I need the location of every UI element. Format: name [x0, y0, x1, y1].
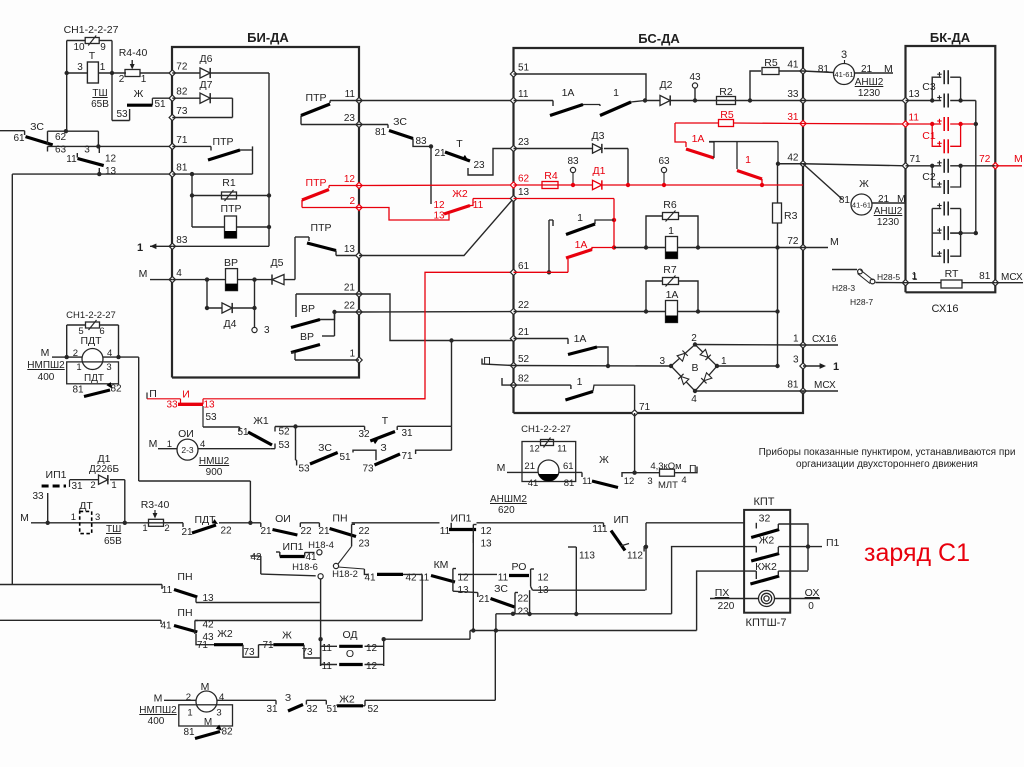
svg-text:22: 22 [518, 300, 530, 311]
svg-text:ПТР: ПТР [213, 136, 234, 148]
svg-text:23: 23 [518, 137, 530, 148]
svg-text:13: 13 [105, 166, 117, 177]
svg-text:организации двухстороннего дви: организации двухстороннего движения [796, 459, 978, 470]
svg-text:Т: Т [89, 50, 96, 62]
svg-text:1: 1 [793, 334, 799, 345]
svg-text:23: 23 [473, 160, 485, 171]
svg-text:1: 1 [187, 708, 192, 719]
svg-text:КМ: КМ [434, 559, 449, 571]
svg-text:1230: 1230 [877, 217, 900, 228]
svg-text:1А: 1А [692, 133, 705, 145]
svg-text:51: 51 [154, 99, 166, 110]
svg-text:3: 3 [216, 708, 221, 719]
svg-text:Ж: Ж [599, 454, 609, 466]
svg-text:82: 82 [221, 727, 233, 738]
svg-text:82: 82 [110, 384, 122, 395]
svg-text:81: 81 [979, 271, 991, 282]
svg-text:ИП1: ИП1 [451, 513, 472, 525]
svg-text:21: 21 [260, 526, 272, 537]
svg-text:43: 43 [689, 72, 701, 83]
svg-text:З: З [285, 692, 291, 704]
svg-text:11: 11 [473, 200, 484, 211]
svg-text:0: 0 [808, 601, 814, 612]
svg-text:61: 61 [563, 461, 574, 472]
svg-text:М: М [41, 347, 50, 359]
svg-text:2: 2 [691, 333, 697, 344]
svg-text:1: 1 [76, 362, 81, 373]
svg-text:Н18-6: Н18-6 [292, 562, 318, 573]
svg-text:71: 71 [197, 640, 209, 651]
svg-text:73: 73 [243, 647, 255, 658]
svg-text:R7: R7 [663, 264, 677, 276]
svg-text:73: 73 [362, 464, 374, 475]
svg-text:БК-ДА: БК-ДА [930, 30, 971, 45]
svg-text:МЛТ: МЛТ [658, 480, 678, 491]
svg-text:21: 21 [318, 526, 330, 537]
svg-text:61: 61 [518, 261, 530, 272]
svg-text:НМПШ2: НМПШ2 [27, 360, 65, 371]
svg-text:2-3: 2-3 [181, 445, 194, 455]
svg-text:41-61: 41-61 [834, 70, 853, 79]
svg-text:Ж: Ж [859, 178, 869, 190]
svg-text:22: 22 [358, 526, 370, 537]
svg-text:ПТР: ПТР [221, 203, 242, 215]
svg-text:ИП1: ИП1 [283, 541, 304, 553]
svg-text:11: 11 [557, 444, 567, 455]
svg-text:65В: 65В [91, 99, 109, 110]
svg-text:11: 11 [322, 661, 333, 672]
svg-text:П1: П1 [826, 537, 840, 549]
svg-text:62: 62 [518, 174, 530, 185]
svg-text:21: 21 [524, 461, 535, 472]
svg-text:41-61: 41-61 [852, 201, 871, 210]
svg-text:ОХ: ОХ [805, 587, 820, 599]
svg-text:73: 73 [301, 647, 313, 658]
svg-text:ТШ: ТШ [106, 524, 121, 535]
svg-text:33: 33 [166, 400, 178, 411]
svg-text:ОИ: ОИ [275, 513, 291, 525]
svg-text:23: 23 [358, 539, 370, 550]
svg-text:1: 1 [141, 74, 147, 85]
svg-text:72: 72 [176, 62, 188, 73]
svg-text:65В: 65В [104, 536, 122, 547]
svg-text:71: 71 [910, 154, 922, 165]
svg-text:23: 23 [517, 607, 529, 618]
svg-text:13: 13 [457, 585, 469, 596]
svg-text:М: М [149, 438, 158, 450]
svg-text:РО: РО [512, 561, 527, 573]
svg-text:10: 10 [73, 42, 85, 53]
svg-text:400: 400 [38, 372, 55, 383]
svg-text:220: 220 [718, 601, 735, 612]
svg-text:11: 11 [909, 113, 920, 124]
svg-text:21: 21 [181, 527, 193, 538]
svg-text:1: 1 [745, 154, 751, 166]
svg-text:Ж2: Ж2 [217, 628, 233, 640]
svg-text:112: 112 [627, 551, 643, 562]
svg-text:Д5: Д5 [271, 257, 284, 269]
svg-text:Д4: Д4 [224, 318, 237, 330]
svg-text:ПХ: ПХ [715, 587, 730, 599]
svg-text:4: 4 [681, 475, 686, 486]
svg-text:82: 82 [176, 87, 188, 98]
svg-text:12: 12 [366, 643, 378, 654]
svg-text:81: 81 [176, 163, 188, 174]
svg-text:9: 9 [100, 42, 106, 53]
svg-text:R4-40: R4-40 [119, 47, 148, 59]
svg-text:R6: R6 [663, 199, 677, 211]
svg-text:33: 33 [32, 491, 44, 502]
svg-text:23: 23 [344, 113, 356, 124]
svg-text:13: 13 [203, 400, 215, 411]
svg-text:М: М [884, 63, 893, 75]
svg-text:11: 11 [345, 89, 356, 100]
svg-text:ОД: ОД [342, 629, 357, 641]
svg-text:ПН: ПН [177, 571, 192, 583]
svg-text:R3-40: R3-40 [141, 499, 170, 511]
svg-text:М: М [897, 193, 906, 205]
svg-text:Н28-3: Н28-3 [832, 283, 855, 293]
svg-text:52: 52 [367, 704, 379, 715]
svg-text:Ж: Ж [282, 630, 292, 642]
svg-text:11: 11 [440, 526, 451, 537]
svg-text:ИП1: ИП1 [46, 469, 67, 481]
svg-text:ИП: ИП [613, 514, 628, 526]
svg-text:М: М [1014, 153, 1023, 165]
svg-text:32: 32 [759, 513, 771, 525]
svg-text:1: 1 [668, 225, 674, 237]
svg-text:НМШ2: НМШ2 [199, 456, 230, 467]
svg-text:СХ16: СХ16 [812, 334, 837, 345]
svg-text:113: 113 [579, 551, 595, 562]
svg-text:1: 1 [142, 523, 147, 534]
svg-text:1: 1 [577, 212, 583, 224]
svg-text:R2: R2 [719, 86, 733, 98]
svg-text:81: 81 [183, 727, 195, 738]
svg-text:81: 81 [564, 478, 575, 489]
svg-text:1: 1 [167, 439, 172, 450]
svg-text:ТШ: ТШ [92, 88, 107, 99]
svg-text:1А: 1А [666, 289, 679, 301]
svg-text:Д6: Д6 [200, 53, 213, 65]
svg-text:Ж: Ж [134, 88, 144, 100]
svg-text:1: 1 [71, 512, 76, 523]
svg-text:41: 41 [364, 573, 376, 584]
svg-text:1А: 1А [562, 87, 575, 99]
svg-text:КПТ: КПТ [753, 496, 774, 508]
svg-text:3: 3 [106, 362, 111, 373]
svg-text:М: М [204, 717, 212, 728]
svg-text:83: 83 [176, 235, 188, 246]
svg-text:81: 81 [818, 64, 830, 75]
svg-text:31: 31 [266, 704, 278, 715]
svg-text:81: 81 [787, 380, 799, 391]
svg-text:53: 53 [205, 412, 217, 423]
svg-text:52: 52 [518, 354, 530, 365]
svg-text:12: 12 [624, 476, 635, 487]
svg-text:R4: R4 [544, 170, 558, 182]
svg-text:2: 2 [119, 74, 125, 85]
svg-text:51: 51 [326, 704, 338, 715]
svg-text:41: 41 [160, 621, 172, 632]
svg-text:3: 3 [77, 62, 83, 73]
svg-text:13: 13 [344, 244, 356, 255]
svg-text:П: П [483, 355, 491, 367]
svg-text:620: 620 [498, 505, 515, 516]
svg-text:12: 12 [433, 200, 445, 211]
svg-text:Приборы показанные пунктиром,: Приборы показанные пунктиром, устанавлив… [759, 446, 1016, 458]
svg-text:81: 81 [375, 127, 387, 138]
svg-text:33: 33 [787, 89, 799, 100]
svg-text:6: 6 [99, 326, 104, 337]
svg-text:3: 3 [84, 145, 90, 156]
svg-text:12: 12 [105, 154, 117, 165]
svg-text:1: 1 [912, 272, 918, 283]
svg-text:53: 53 [116, 109, 128, 120]
svg-text:13: 13 [433, 211, 445, 222]
svg-text:81: 81 [72, 385, 84, 396]
svg-text:R5: R5 [764, 57, 778, 69]
svg-text:1А: 1А [575, 239, 588, 251]
svg-text:ЗС: ЗС [318, 442, 332, 454]
svg-text:21: 21 [344, 283, 356, 294]
svg-text:Д1: Д1 [593, 165, 606, 177]
svg-text:42: 42 [787, 152, 799, 163]
svg-text:21: 21 [478, 594, 490, 605]
svg-text:СН1-2-2-27: СН1-2-2-27 [66, 310, 116, 321]
svg-text:53: 53 [298, 464, 310, 475]
svg-text:61: 61 [13, 133, 25, 144]
svg-text:51: 51 [339, 452, 351, 463]
svg-text:5: 5 [78, 326, 83, 337]
svg-text:51: 51 [518, 63, 530, 74]
svg-text:4,3кОм: 4,3кОм [650, 461, 681, 472]
svg-text:ПДТ: ПДТ [194, 514, 216, 526]
svg-text:31: 31 [401, 428, 413, 439]
svg-text:71: 71 [176, 135, 188, 146]
svg-text:ЗС: ЗС [494, 583, 508, 595]
svg-text:12: 12 [529, 444, 540, 455]
svg-text:ПТР: ПТР [306, 177, 327, 189]
svg-text:Т: Т [456, 138, 463, 150]
svg-text:82: 82 [518, 374, 530, 385]
svg-text:М: М [139, 268, 148, 280]
svg-text:НМПШ2: НМПШ2 [139, 705, 177, 716]
svg-text:12: 12 [537, 573, 549, 584]
svg-text:заряд С1: заряд С1 [864, 539, 970, 567]
svg-text:3: 3 [647, 476, 652, 487]
svg-text:Ж2: Ж2 [759, 535, 775, 547]
svg-text:3: 3 [264, 325, 270, 336]
svg-text:83: 83 [567, 156, 579, 167]
svg-text:11: 11 [518, 89, 529, 100]
svg-text:22: 22 [344, 301, 356, 312]
svg-text:Т: Т [382, 415, 389, 427]
svg-text:СН1-2-2-27: СН1-2-2-27 [521, 424, 571, 435]
svg-text:RT: RT [945, 268, 959, 280]
svg-text:1А: 1А [574, 333, 587, 345]
svg-text:ОИ: ОИ [178, 428, 194, 440]
svg-text:ДТ: ДТ [79, 500, 93, 512]
svg-text:4: 4 [176, 268, 182, 279]
svg-text:АНШ2: АНШ2 [874, 206, 903, 217]
svg-text:КЖ2: КЖ2 [755, 561, 777, 573]
svg-text:1230: 1230 [858, 88, 881, 99]
svg-text:31: 31 [787, 112, 799, 123]
svg-text:22: 22 [517, 594, 529, 605]
svg-text:53: 53 [278, 440, 290, 451]
svg-text:71: 71 [262, 640, 274, 651]
svg-text:АНШ2: АНШ2 [855, 77, 884, 88]
svg-text:ВР: ВР [301, 303, 315, 315]
svg-text:R3: R3 [784, 210, 798, 222]
svg-text:400: 400 [148, 716, 165, 727]
svg-text:БИ-ДА: БИ-ДА [247, 30, 289, 45]
svg-text:И: И [182, 389, 190, 401]
svg-text:1: 1 [833, 361, 839, 373]
svg-text:81: 81 [839, 195, 851, 206]
svg-text:41: 41 [787, 60, 799, 71]
svg-text:БС-ДА: БС-ДА [638, 31, 680, 46]
svg-text:83: 83 [415, 136, 427, 147]
svg-text:СХ16: СХ16 [932, 303, 959, 315]
svg-text:АНШМ2: АНШМ2 [490, 494, 527, 505]
svg-text:Д2: Д2 [660, 79, 673, 91]
svg-text:1: 1 [349, 349, 355, 360]
svg-text:М: М [154, 693, 163, 705]
svg-text:Д3: Д3 [592, 130, 605, 142]
svg-text:2: 2 [186, 692, 191, 703]
svg-text:12: 12 [366, 661, 378, 672]
svg-text:СН1-2-2-27: СН1-2-2-27 [64, 24, 119, 36]
svg-text:В: В [691, 362, 698, 374]
svg-text:73: 73 [176, 106, 188, 117]
svg-text:62: 62 [55, 132, 67, 143]
svg-text:2: 2 [349, 196, 355, 207]
svg-text:М: М [830, 236, 839, 248]
svg-text:11: 11 [162, 585, 173, 596]
svg-text:21: 21 [434, 148, 446, 159]
svg-text:М: М [497, 462, 506, 474]
svg-text:71: 71 [639, 402, 651, 413]
svg-text:13: 13 [909, 89, 921, 100]
svg-text:ПДТ: ПДТ [84, 373, 104, 384]
svg-text:Ж2: Ж2 [339, 694, 355, 706]
svg-text:52: 52 [278, 427, 290, 438]
svg-text:51: 51 [237, 427, 249, 438]
svg-text:4: 4 [219, 692, 224, 703]
svg-text:4: 4 [691, 394, 697, 405]
svg-text:21: 21 [518, 327, 530, 338]
svg-text:Ж2: Ж2 [452, 188, 468, 200]
svg-text:ПН: ПН [332, 513, 347, 525]
svg-text:71: 71 [401, 451, 413, 462]
svg-text:З: З [380, 442, 386, 454]
svg-text:Ж1: Ж1 [253, 415, 269, 427]
svg-text:Н28-5: Н28-5 [877, 272, 900, 282]
svg-text:12: 12 [344, 174, 356, 185]
svg-text:3: 3 [841, 49, 847, 61]
svg-text:3: 3 [95, 512, 100, 523]
svg-text:12: 12 [480, 526, 492, 537]
svg-text:О: О [346, 648, 354, 660]
svg-text:Н28-7: Н28-7 [850, 297, 873, 307]
svg-text:63: 63 [658, 156, 670, 167]
svg-text:11: 11 [582, 476, 592, 487]
svg-text:11: 11 [66, 154, 77, 165]
svg-text:13: 13 [480, 539, 492, 550]
svg-text:11: 11 [498, 573, 509, 584]
svg-text:72: 72 [787, 236, 799, 247]
svg-text:111: 111 [592, 524, 608, 535]
svg-text:ВР: ВР [300, 331, 314, 343]
svg-text:22: 22 [220, 526, 232, 537]
svg-text:ЗС: ЗС [393, 116, 407, 128]
svg-text:ПТР: ПТР [306, 92, 327, 104]
svg-text:ВР: ВР [224, 257, 238, 269]
svg-text:22: 22 [300, 526, 312, 537]
svg-text:32: 32 [306, 704, 318, 715]
svg-text:2: 2 [164, 523, 169, 534]
svg-text:41: 41 [528, 478, 539, 489]
svg-text:1: 1 [613, 87, 619, 99]
svg-text:Д7: Д7 [200, 79, 213, 91]
svg-text:ПТР: ПТР [311, 222, 332, 234]
svg-text:М: М [20, 512, 29, 524]
svg-text:Н18-2: Н18-2 [332, 569, 358, 580]
svg-text:КПТШ-7: КПТШ-7 [746, 617, 787, 629]
svg-text:11: 11 [322, 643, 333, 654]
svg-text:72: 72 [979, 154, 991, 165]
svg-text:МСХ: МСХ [814, 380, 836, 391]
svg-text:С3: С3 [922, 81, 936, 93]
svg-text:С1: С1 [922, 130, 936, 142]
svg-text:2: 2 [90, 480, 95, 491]
svg-text:13: 13 [518, 187, 530, 198]
svg-text:32: 32 [358, 429, 370, 440]
svg-text:1: 1 [111, 480, 116, 491]
svg-text:Д226Б: Д226Б [89, 464, 119, 475]
svg-text:1: 1 [137, 242, 143, 254]
svg-text:П: П [689, 463, 697, 475]
svg-text:Н18-4: Н18-4 [308, 540, 334, 551]
svg-text:1: 1 [100, 62, 106, 73]
svg-text:31: 31 [71, 481, 83, 492]
svg-text:3: 3 [793, 355, 799, 366]
svg-text:900: 900 [206, 467, 223, 478]
svg-text:ЗС: ЗС [30, 121, 44, 133]
svg-text:ПН: ПН [177, 607, 192, 619]
svg-text:1: 1 [577, 376, 583, 388]
svg-text:R1: R1 [222, 177, 236, 189]
svg-text:3: 3 [659, 356, 665, 367]
svg-text:С2: С2 [922, 171, 936, 183]
svg-text:МСХ: МСХ [1001, 272, 1023, 283]
